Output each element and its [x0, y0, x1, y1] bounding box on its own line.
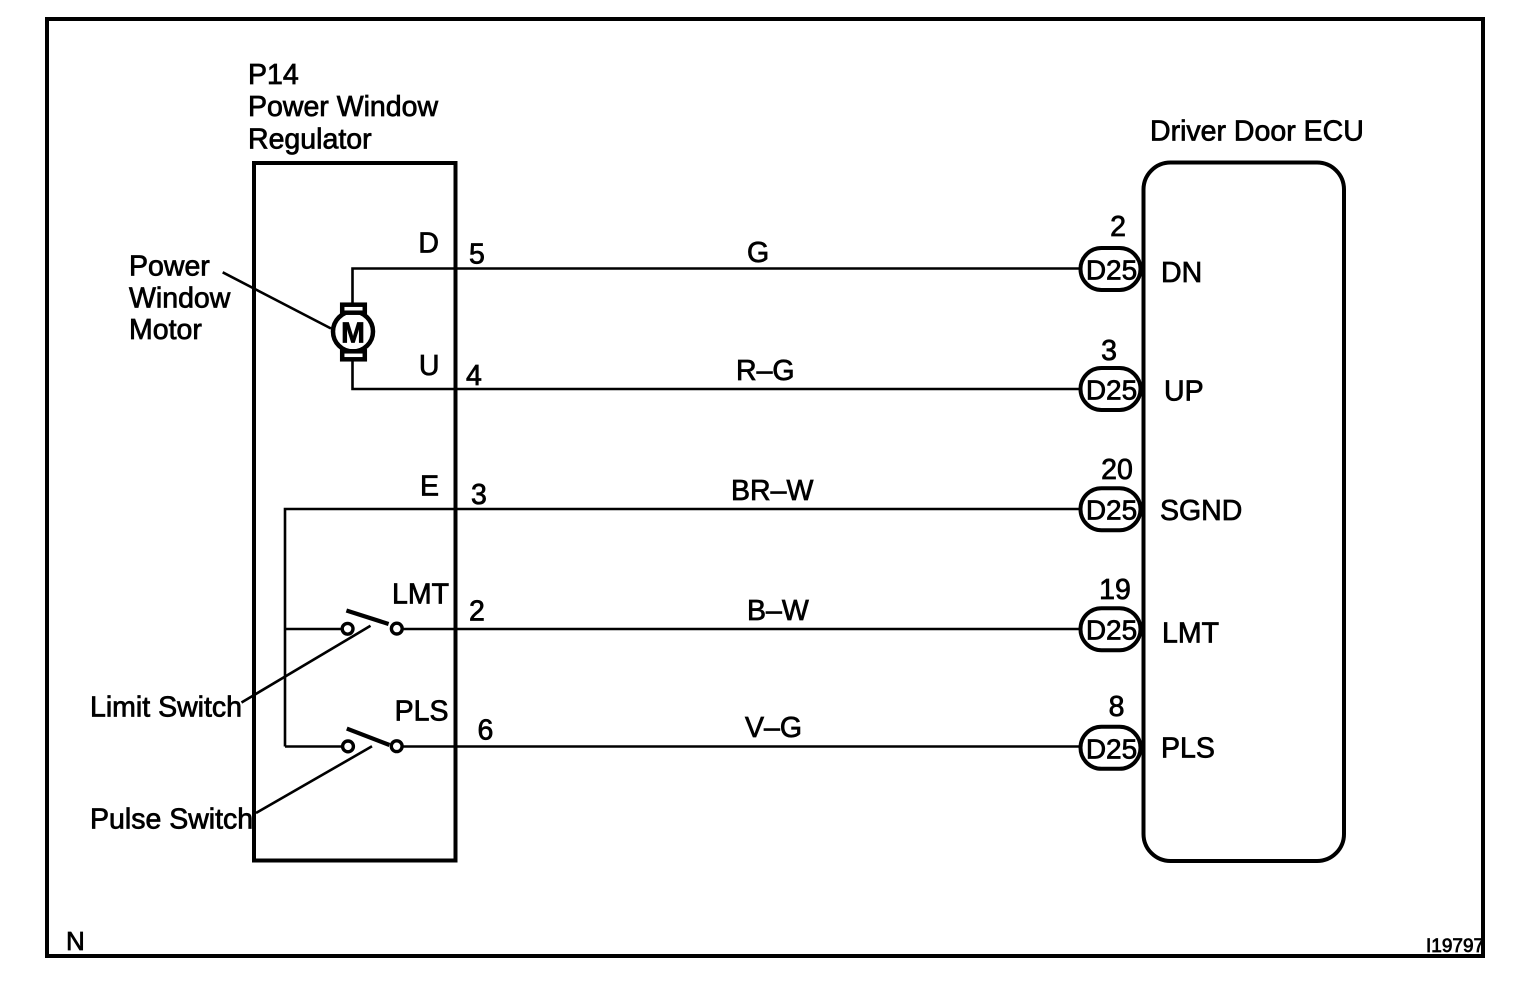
svg-text:6: 6 — [478, 715, 494, 747]
svg-text:DN: DN — [1161, 257, 1202, 289]
svg-text:4: 4 — [466, 360, 482, 392]
terminal D — [418, 228, 439, 260]
svg-text:3: 3 — [471, 479, 487, 511]
svg-text:8: 8 — [1109, 691, 1125, 723]
wire R-G: motor terminal U to ECU UP — [353, 361, 1081, 389]
component P14 Power Window Regulator box — [248, 59, 456, 861]
component Driver Door ECU box — [1144, 116, 1364, 862]
pin 5 — [469, 239, 485, 271]
motor M power window motor symbol — [333, 305, 373, 360]
limit switch — [285, 611, 402, 635]
svg-text:D25: D25 — [1086, 495, 1137, 526]
connector D25 pin 2 (DN) — [1081, 211, 1141, 290]
pin 4 — [466, 360, 482, 392]
wire color label B-W — [747, 595, 809, 627]
svg-text:N: N — [66, 926, 85, 956]
svg-text:Driver Door ECU: Driver Door ECU — [1150, 116, 1364, 148]
label Limit Switch with leader line — [90, 626, 371, 724]
svg-text:P14: P14 — [248, 59, 299, 91]
svg-text:LMT: LMT — [1162, 618, 1219, 650]
connector D25 pin 20 (SGND) — [1081, 454, 1141, 530]
svg-text:5: 5 — [469, 239, 485, 271]
svg-text:UP: UP — [1164, 376, 1204, 408]
terminal LMT — [392, 579, 449, 611]
svg-text:E: E — [420, 471, 439, 503]
connector D25 pin 8 (PLS) — [1081, 691, 1141, 769]
wire color label G — [747, 237, 769, 269]
svg-text:Regulator: Regulator — [248, 124, 372, 156]
pin 3 — [471, 479, 487, 511]
svg-text:Window: Window — [129, 283, 231, 315]
svg-text:U: U — [419, 350, 440, 382]
label Pulse Switch with leader line — [90, 746, 372, 835]
svg-text:PLS: PLS — [395, 696, 449, 728]
svg-text:20: 20 — [1101, 454, 1133, 486]
pulse switch — [285, 729, 402, 752]
svg-text:M: M — [341, 318, 365, 350]
svg-text:G: G — [747, 237, 769, 269]
svg-text:B–W: B–W — [747, 595, 809, 627]
pin name SGND — [1160, 495, 1242, 527]
note N — [66, 926, 85, 956]
connector D25 pin 19 (LMT) — [1081, 574, 1141, 650]
wire BR-W: terminal E to ECU SGND — [285, 509, 1080, 747]
svg-text:Power Window: Power Window — [248, 91, 438, 123]
svg-text:D25: D25 — [1086, 375, 1137, 406]
svg-text:Limit Switch: Limit Switch — [90, 692, 242, 724]
svg-text:Motor: Motor — [129, 314, 202, 346]
svg-text:V–G: V–G — [745, 712, 802, 744]
pin 6 — [478, 715, 494, 747]
note I19797 — [1426, 936, 1484, 957]
label Power Window Motor with leader line — [129, 251, 331, 347]
terminal E — [420, 471, 439, 503]
svg-text:D25: D25 — [1086, 733, 1137, 764]
wire G: motor terminal D to ECU DN — [353, 269, 1081, 303]
svg-text:LMT: LMT — [392, 579, 449, 611]
wire color label R-G — [736, 355, 795, 387]
svg-text:BR–W: BR–W — [731, 475, 813, 507]
svg-text:3: 3 — [1101, 335, 1117, 367]
wire B-W: limit switch to ECU LMT — [403, 628, 1080, 631]
svg-text:2: 2 — [469, 596, 485, 628]
pin name LMT — [1162, 618, 1219, 650]
pin name PLS — [1161, 733, 1215, 765]
pin name DN — [1161, 257, 1202, 289]
svg-text:19: 19 — [1099, 574, 1131, 606]
terminal U — [419, 350, 440, 382]
svg-text:D25: D25 — [1086, 615, 1137, 646]
svg-text:Pulse Switch: Pulse Switch — [90, 804, 253, 836]
svg-text:R–G: R–G — [736, 355, 795, 387]
svg-text:2: 2 — [1110, 211, 1126, 243]
wire color label V-G — [745, 712, 802, 744]
svg-text:I19797: I19797 — [1426, 936, 1484, 957]
pin 2 — [469, 596, 485, 628]
terminal PLS — [395, 696, 449, 728]
svg-text:Power: Power — [129, 251, 210, 283]
svg-text:D25: D25 — [1086, 255, 1137, 286]
svg-text:SGND: SGND — [1160, 495, 1242, 527]
svg-text:PLS: PLS — [1161, 733, 1215, 765]
svg-text:D: D — [418, 228, 439, 260]
wire color label BR-W — [731, 475, 813, 507]
pin name UP — [1164, 376, 1204, 408]
connector D25 pin 3 (UP) — [1081, 335, 1141, 410]
wire V-G: pulse switch to ECU PLS — [403, 745, 1080, 748]
